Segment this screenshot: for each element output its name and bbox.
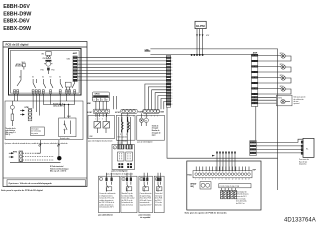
demanda strip pin numbers [195, 179, 250, 181]
svg-text:16: 16 [245, 179, 247, 181]
middle connector column lower [166, 83, 172, 108]
svg-text:6: 6 [171, 98, 172, 100]
svg-text:L1: L1 [93, 99, 95, 101]
relay RY1 box [65, 82, 71, 87]
demand bus drop wires [217, 152, 235, 171]
hook wire right [58, 140, 60, 156]
svg-text:rífico de la PCB: rífico de la PCB [140, 198, 151, 200]
svg-text:K4: K4 [42, 77, 44, 79]
salida valvula label [53, 104, 64, 108]
svg-text:opcional: opcional [294, 103, 301, 105]
option module 2 [121, 173, 137, 213]
intercambiador box [116, 113, 135, 140]
red inteligente right box [137, 113, 165, 140]
svg-text:8: 8 [171, 80, 172, 82]
svg-text:13: 13 [235, 179, 237, 181]
svg-text:4: 4 [171, 92, 172, 94]
wires KCM down to smart grid box [119, 117, 131, 145]
svg-text:de la demanda: de la demanda [236, 201, 247, 203]
svg-text:230 V): 230 V) [6, 134, 11, 136]
svg-text:1: 1 [101, 179, 102, 181]
SEQ ATRAS/DELANTE label [15, 62, 26, 69]
solenoid valve dot [57, 156, 61, 160]
svg-text:KIM: KIM [87, 103, 91, 105]
wire bus AMP CN2 to middle connector [77, 58, 166, 80]
mains text [6, 128, 17, 136]
bottom feed line [10, 161, 61, 163]
title underline [3, 46, 87, 48]
svg-text:L2: L2 [101, 99, 103, 101]
svg-text:5: 5 [120, 134, 121, 136]
ELPM box [195, 21, 206, 28]
svg-text:C1 C2 C3 C4 C5 C6 C7 C8: C1 C2 C3 C4 C5 C6 C7 C8 [220, 186, 240, 188]
svg-text:para red inteligente: para red inteligente [112, 170, 128, 173]
svg-text:de 230 V ca: de 230 V ca [236, 203, 245, 205]
AMP connector CN2 pin column [73, 56, 77, 82]
hook wire left [37, 140, 41, 153]
KTM connector upper [20, 107, 32, 121]
svg-text:3: 3 [171, 64, 172, 66]
señal text block dark [152, 124, 161, 136]
lower right 4-pin group [250, 141, 256, 156]
wire second bus line [150, 53, 251, 55]
lamp circuit 1 [258, 53, 291, 61]
svg-text:11: 11 [228, 179, 230, 181]
svg-text:CN8: CN8 [160, 112, 164, 114]
svg-text:Solo para la opción de PCB de: Solo para la opción de PCB de demanda [185, 213, 228, 215]
svg-text:HGA: HGA [187, 173, 192, 176]
switch row labels [19, 77, 76, 79]
svg-text:5: 5 [171, 95, 172, 97]
KDM connector strip [138, 109, 159, 117]
svg-text:KCM: KCM [115, 112, 120, 114]
outer box PCB de1/2 digital [3, 42, 87, 187]
svg-text:seguridad 230 V: seguridad 230 V [140, 204, 153, 206]
intercambiador label [117, 139, 128, 144]
mains sensor circle [10, 105, 14, 109]
svg-text:7: 7 [171, 101, 172, 103]
svg-text:KOM: KOM [87, 112, 92, 114]
svg-text:de seguridad: de seguridad [140, 217, 150, 219]
lamp circuit 3 [258, 75, 291, 83]
svg-text:3: 3 [171, 90, 172, 92]
svg-text:E8BX-D6V: E8BX-D6V [3, 19, 30, 25]
wires OPCS to KOM [96, 96, 117, 109]
door thermostat text box [31, 127, 45, 136]
heater text block [50, 165, 69, 172]
svg-text:Solo para la opción de PCB de1: Solo para la opción de PCB de1/2 digital [1, 189, 43, 192]
svg-text:K5: K5 [32, 77, 34, 79]
relay/switch row on PCB bottom [17, 70, 75, 88]
svg-text:2: 2 [123, 179, 124, 181]
svg-text:10: 10 [225, 179, 227, 181]
svg-text:humos del caudal: humos del caudal [122, 198, 135, 200]
option module 3 [139, 173, 153, 213]
svg-text:de 230 V ca de: de 230 V ca de [122, 200, 133, 202]
entrada solar box [59, 118, 76, 137]
svg-text:3: 3 [141, 179, 142, 181]
svg-text:de la PCB: de la PCB [155, 198, 162, 200]
ELPM wires down [197, 29, 203, 55]
svg-text:de 230 V 50 Hz de la: de 230 V 50 Hz de la [99, 202, 114, 204]
bajamacion smart grid box [112, 145, 134, 170]
PCB main board box (thick double border) [9, 49, 82, 96]
svg-text:Bomba/Caja de: Bomba/Caja de [122, 193, 133, 195]
svg-text:(Ma. capy S. i.: (Ma. capy S. i. [6, 132, 17, 134]
svg-text:Censo de combinación: Censo de combinación [99, 193, 115, 195]
demand bus arrow [212, 155, 215, 157]
left box inner bottom line [3, 177, 87, 179]
svg-text:1: 1 [171, 84, 172, 86]
svg-text:Censo de 24 V: Censo de 24 V [236, 196, 247, 198]
option module 1 [99, 173, 120, 213]
svg-text:0: 0 [114, 148, 115, 150]
option module 4 [154, 173, 164, 213]
demanda hatched resistors [221, 188, 237, 199]
OPCS tarjeta de red box [92, 92, 109, 101]
demanda connector strip circles [195, 173, 250, 176]
svg-text:K2: K2 [59, 77, 61, 79]
demanda strip ticks [196, 167, 249, 172]
inner border line of PCB box [10, 50, 79, 93]
svg-text:para red inteligente de bajama: para red inteligente de bajamación [106, 172, 133, 175]
svg-text:K6: K6 [19, 77, 21, 79]
stepped wires lower connector to KCM/KDM [145, 84, 167, 109]
PCB bottom edge pin circles [13, 90, 75, 94]
svg-text:CN2: CN2 [67, 58, 71, 60]
svg-text:14: 14 [238, 179, 240, 181]
dashed wires to heater valve [23, 153, 54, 160]
svg-text:AMP: AMP [73, 52, 78, 55]
svg-text:P10: P10 [51, 69, 54, 71]
svg-text:1: 1 [171, 57, 172, 59]
demanda row2 ATRAS [190, 182, 251, 189]
svg-text:ELPM: ELPM [196, 24, 205, 28]
wire CN6 top to right vertical [150, 49, 277, 190]
wire middle column down to demand bus [167, 108, 278, 159]
svg-text:2: 2 [171, 61, 172, 63]
KCM connector strip [115, 109, 137, 117]
svg-text:7: 7 [171, 77, 172, 79]
svg-text:5: 5 [171, 70, 172, 72]
svg-text:4D133764A: 4D133764A [284, 218, 316, 224]
svg-text:de 230 V: de 230 V [155, 200, 162, 202]
lamp circuit 4 [258, 86, 291, 94]
svg-text:2: 2 [171, 87, 172, 89]
svg-text:4: 4 [171, 67, 172, 69]
svg-text:6: 6 [171, 73, 172, 75]
demanda text lines [236, 190, 249, 205]
svg-text:1 N ca de: 1 N ca de [155, 202, 162, 204]
left box inner section [5, 101, 83, 140]
svg-text:agua: agua [152, 135, 156, 137]
svg-text:Censo del: Censo del [155, 193, 163, 195]
verticals from PCB pins into section [15, 94, 75, 115]
svg-text:KDM: KDM [138, 111, 143, 113]
svg-text:S2: S2 [106, 99, 108, 101]
svg-text:de aire: de aire [294, 101, 299, 103]
svg-text:17: 17 [248, 179, 250, 181]
lamp circuit 5 boxed [258, 95, 292, 106]
junction wires right part of section [43, 105, 74, 119]
svg-text:KTM: KTM [13, 151, 17, 153]
right AMP connector column [251, 54, 257, 106]
svg-text:válvula NTC: válvula NTC [53, 106, 64, 108]
ELPM wire arrowheads [196, 34, 203, 36]
svg-text:OPCS: OPCS [95, 94, 101, 96]
model list text [3, 4, 32, 32]
flow sensor device box [301, 138, 314, 157]
junction dots ELPM bus [191, 54, 193, 56]
KTM connector lower [9, 151, 23, 162]
vertical wire right AMP to lower group [255, 106, 257, 140]
svg-text:(Ma. cap y S. i. 230 V): (Ma. cap y S. i. 230 V) [50, 171, 67, 173]
opciones valvula strip box [7, 180, 86, 186]
wires 4-pin group to flow sensor [256, 139, 303, 153]
svg-text:S1: S1 [97, 99, 99, 101]
svg-text:desagüe de: desagüe de [152, 132, 161, 134]
svg-text:E8BH-D9W: E8BH-D9W [3, 12, 32, 18]
svg-text:Opciones: Válvula de encendido: Opciones: Válvula de encendido/apagado [9, 183, 53, 185]
svg-text:E8BH-D6V: E8BH-D6V [3, 4, 30, 10]
svg-text:Tensión de la: Tensión de la [6, 128, 16, 130]
demanda strip surround box [193, 171, 252, 178]
alta tension box [88, 113, 115, 138]
svg-text:E8BX-D9W: E8BX-D9W [3, 26, 32, 32]
svg-text:la bomba de los: la bomba de los [122, 202, 133, 204]
middle connector column CN5 upper [166, 56, 172, 82]
PCB de demanda box [187, 161, 261, 210]
KOM connector strip [87, 109, 110, 120]
svg-text:demanda de para: demanda de para [236, 194, 249, 196]
flow sensor label [299, 159, 309, 165]
transformer P20/P10 [41, 52, 55, 75]
svg-text:12: 12 [232, 179, 234, 181]
svg-text:Solo para opción: Solo para opción [294, 97, 306, 99]
svg-text:8: 8 [171, 104, 172, 106]
svg-text:Bomba de: Bomba de [152, 130, 160, 132]
svg-text:K3: K3 [50, 77, 52, 79]
svg-text:K1: K1 [74, 77, 76, 79]
svg-text:de calefacción: de calefacción [294, 99, 304, 101]
mains resistor [11, 114, 14, 121]
svg-text:CN5: CN5 [42, 58, 45, 60]
svg-text:Censo de 24 V cc/de: Censo de 24 V cc/de [99, 198, 114, 200]
text beside boxed lamp [294, 97, 306, 105]
lamp circuit 2 [258, 64, 291, 72]
svg-text:demanda: demanda [155, 204, 162, 206]
svg-text:PCB de1/2 digital: PCB de1/2 digital [6, 43, 29, 47]
svg-text:15: 15 [242, 179, 244, 181]
svg-text:Para sacar de: Para sacar de [299, 159, 309, 161]
svg-text:P20: P20 [41, 69, 44, 71]
svg-text:desagüe: desagüe [152, 128, 159, 130]
